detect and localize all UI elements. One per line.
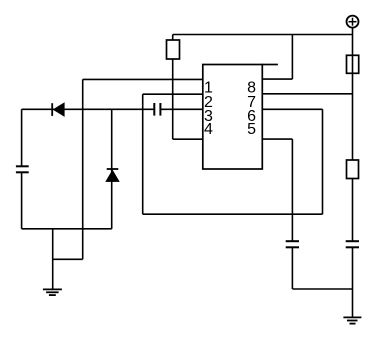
wire diode net left segment (22, 108, 155, 110)
capacitor C3 (286, 241, 299, 247)
wire bottom-left horizontal (22, 228, 112, 230)
wire pin 1 drop vertical (82, 79, 84, 259)
supply symbol +V circle (347, 16, 359, 28)
ground (bottom left) (43, 289, 62, 295)
svg-text:5: 5 (247, 121, 256, 138)
wire bottom horizontal y289 (292, 288, 352, 290)
wire pin 5 drop vertical to C3 (291, 139, 293, 241)
op-amp U1 (IC body) (203, 65, 262, 170)
wire pin 8 up vertical (291, 35, 293, 80)
diode D1 (horizontal, cathode bar left) (52, 103, 64, 117)
wire supply rail vertical (352, 28, 354, 241)
wire jog horizontal y259 (53, 258, 83, 260)
diode D2 (vertical, pointing up) (106, 169, 119, 182)
resistor R3 (347, 160, 359, 179)
resistor R1 (167, 40, 180, 59)
wire pin 2 horizontal (143, 93, 203, 95)
wire cap C2 to pin 3 (160, 108, 203, 110)
wire pin 7 horizontal to rail (262, 93, 352, 95)
wire C4 bottom vertical to ground (352, 248, 354, 318)
wire pin 6 drop vertical (322, 109, 324, 214)
wire pin 4 horizontal into IC (173, 138, 203, 140)
wire top rail from R1 to supply (173, 34, 353, 36)
wire R1 vertical through to pin 4 level (172, 35, 174, 140)
resistor R2 (wire visible through body) (347, 55, 359, 73)
wire D2 branch vertical (111, 109, 113, 229)
svg-text:4: 4 (204, 121, 213, 138)
wire pin 1 horizontal (83, 78, 203, 80)
wire left branch vertical to C1 (21, 109, 23, 166)
wire IC top edge extension (262, 64, 278, 66)
ground (bottom right) (343, 317, 361, 323)
wire pin 2 drop vertical (142, 94, 144, 214)
wire C3 bottom vertical (291, 248, 293, 290)
wire pin 5 horizontal (262, 138, 292, 140)
capacitor C1 (left vertical) (16, 166, 29, 172)
wire C1 bottom vertical (21, 173, 23, 229)
wire pin 8 horizontal (262, 78, 292, 80)
capacitor C2 (series horizontal) (154, 103, 160, 116)
wire pin 6 horizontal (262, 108, 322, 110)
capacitor C4 (346, 241, 359, 247)
wire long horizontal y214 (143, 213, 323, 215)
wire ground stem branch (52, 229, 54, 289)
